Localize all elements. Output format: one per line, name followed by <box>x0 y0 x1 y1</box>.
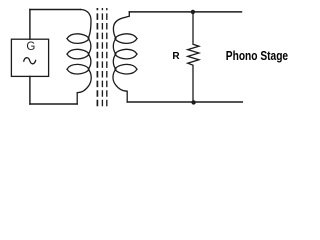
transformer T1 secondary winding spine <box>113 12 129 102</box>
generator G1 box <box>11 39 48 76</box>
wire bottom riser from generator <box>29 76 31 104</box>
wire top left horizontal <box>30 9 81 11</box>
svg-text:R: R <box>172 51 180 62</box>
transformer T1 core dashed line middle <box>101 8 103 108</box>
transformer T1 core dashed line right <box>106 8 108 108</box>
transformer T1 secondary loop 1 <box>115 34 137 44</box>
transformer T1 primary winding spine <box>77 10 91 105</box>
transformer T1 primary loop 1 <box>67 34 89 44</box>
transformer T1 secondary loop 3 <box>115 64 137 74</box>
svg-text:Phono Stage: Phono Stage <box>226 49 288 63</box>
svg-text:G: G <box>26 41 35 53</box>
transformer T1 primary loop 2 <box>67 49 89 59</box>
wire bottom right horizontal <box>127 101 242 103</box>
wire top riser from generator <box>29 10 31 40</box>
transformer T1 core dashed line left <box>96 8 98 108</box>
junction node bottom <box>191 100 195 104</box>
junction node top <box>191 10 195 14</box>
generator sine symbol <box>24 58 36 64</box>
transformer T1 secondary loop 2 <box>115 49 137 59</box>
transformer T1 primary loop 3 <box>67 64 89 74</box>
wire top right horizontal <box>129 11 241 13</box>
resistor R <box>188 13 199 102</box>
wire bottom left horizontal <box>30 103 77 105</box>
